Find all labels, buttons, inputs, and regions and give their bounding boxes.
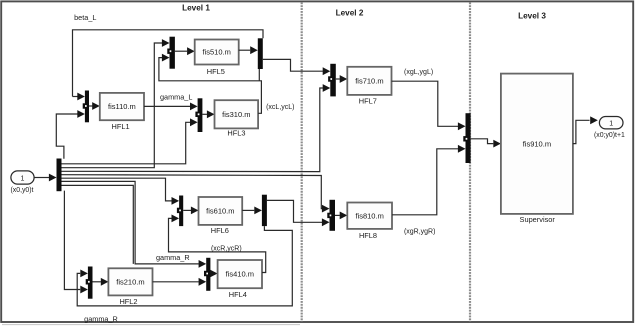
svg-text:HFL4: HFL4: [229, 290, 247, 299]
mux M6 bar: [179, 196, 183, 227]
svg-text:(x0;y0)t+1: (x0;y0)t+1: [594, 132, 625, 139]
wire fis510 out to demux D5: [239, 49, 251, 51]
svg-text:gamma_L: gamma_L: [160, 92, 192, 101]
svg-text:(xcL,ycL): (xcL,ycL): [266, 104, 294, 111]
svg-text:HFL8: HFL8: [359, 231, 377, 240]
wire M8 out to fis810: [335, 214, 340, 216]
output port oval 1: [599, 117, 623, 129]
wire M4 out to fis410: [210, 273, 212, 275]
wire M3 out to fis310: [202, 113, 207, 115]
scan shadow under bottom border: [2, 324, 300, 326]
svg-text:HFL7: HFL7: [359, 97, 377, 106]
mux M9 bar: [466, 113, 471, 163]
level divider 2-3: [469, 2, 471, 321]
wire D0 line1 to mux M3 in2: [62, 122, 191, 164]
svg-text:fis410.m: fis410.m: [226, 270, 254, 279]
svg-text:beta_L: beta_L: [74, 13, 96, 22]
wire D0 line3 to mux M7 in2: [62, 88, 323, 172]
wire D5 out to mux M7 in1: [263, 59, 323, 71]
demux D6 bar: [262, 195, 267, 226]
wire D0 top jog to mux M1 in2: [56, 114, 77, 159]
wire M5 out to fis510: [175, 50, 187, 52]
svg-text:(x0,y0)t: (x0,y0)t: [11, 187, 34, 194]
svg-text:Level 1: Level 1: [182, 3, 210, 12]
svg-text:HFL2: HFL2: [119, 297, 137, 306]
svg-text:fis710.m: fis710.m: [355, 76, 383, 85]
wire beta_L net: [73, 30, 264, 97]
svg-text:HFL5: HFL5: [207, 67, 225, 76]
mux M9 port marker: [463, 136, 469, 141]
block HFL5 fis510.m: [195, 40, 239, 65]
wire M7 out to fis710: [336, 78, 340, 80]
wire M6 out to fis610: [183, 209, 191, 211]
block HFL2 fis210.m: [108, 268, 152, 295]
block HFL7 fis710.m: [347, 67, 391, 95]
block HFL8 fis810.m: [347, 203, 392, 229]
demux D0 bar: [57, 159, 62, 192]
svg-text:fis910.m: fis910.m: [523, 139, 551, 148]
mux M3 bar: [198, 98, 203, 132]
level divider 1-2: [301, 2, 303, 321]
mux M6 port marker: [177, 208, 183, 213]
wire fis610 out to demux D6: [242, 209, 254, 211]
wire input oval to demux D0: [34, 177, 49, 179]
mux M1 bar: [85, 91, 89, 123]
svg-text:HFL6: HFL6: [211, 226, 229, 235]
wire D0 line5 to mux M6 in1: [62, 178, 172, 201]
mux M4 port marker: [204, 271, 210, 276]
wire D0 line6 gamma_R to mux M4 in1: [62, 181, 199, 264]
wire fis710 out xgL,ygL to mux M9 in1: [392, 81, 459, 126]
wire fis810 out xgR,ygR to mux M9 in2: [392, 149, 458, 215]
svg-text:fis810.m: fis810.m: [355, 211, 383, 220]
svg-text:Supervisor: Supervisor: [520, 215, 556, 224]
svg-text:(xgR,ygR): (xgR,ygR): [404, 229, 436, 236]
svg-text:fis310.m: fis310.m: [222, 110, 250, 119]
svg-text:(xcR,ycR): (xcR,ycR): [211, 246, 242, 253]
wire M1 out to fis110: [89, 105, 92, 107]
wire D0 bottom to mux M2 in2: [64, 191, 80, 290]
wire M2 out to fis210: [93, 281, 101, 283]
svg-text:fis510.m: fis510.m: [203, 48, 231, 57]
wire D5 bottom stub to xcL loop: [258, 69, 260, 81]
block HFL1 fis110.m: [100, 93, 144, 120]
svg-text:fis210.m: fis210.m: [116, 277, 144, 286]
wire fis210 out to mux M4 in2: [153, 281, 199, 283]
svg-text:fis610.m: fis610.m: [206, 207, 234, 216]
svg-text:HFL1: HFL1: [112, 122, 130, 131]
mux M8 port marker: [327, 213, 333, 218]
wire M9 out to Supervisor: [471, 139, 494, 144]
block HFL6 fis610.m: [199, 197, 243, 225]
mux M5 port marker: [167, 49, 173, 54]
wire Supervisor out to output oval: [573, 120, 590, 143]
wire D6 out to mux M8 in2: [267, 200, 322, 222]
svg-text:1: 1: [21, 175, 25, 182]
wire fis410 out xcR,ycR loop to mux M6 in2: [169, 218, 266, 272]
mux M1 port marker: [83, 103, 89, 108]
svg-text:1: 1: [609, 121, 613, 128]
mux M5 bar: [170, 37, 175, 69]
mux M8 bar: [330, 200, 336, 231]
wire D6 bottom gamma_R loop to mux M2 in1: [77, 226, 292, 306]
mux M2 port marker: [86, 279, 92, 284]
mux M7 bar: [330, 64, 336, 97]
svg-text:Level 3: Level 3: [518, 11, 546, 20]
mux M7 port marker: [328, 76, 334, 81]
wire fis310 out xcL,ycL loop to mux M5 in2: [159, 58, 262, 114]
wire D0 line4 to mux M8 in1: [62, 175, 323, 209]
block HFL3 fis310.m: [215, 100, 259, 128]
wire D0 line7 parallel drop: [62, 185, 134, 264]
wire D0 line2 to mux M5 in1: [62, 43, 163, 168]
wire fis110 out gamma_L to mux M3 in1: [144, 105, 190, 107]
block HFL4 fis410.m: [218, 260, 262, 288]
mux M4 bar: [206, 258, 210, 291]
svg-text:gamma_R: gamma_R: [156, 253, 190, 262]
demux D5 bar: [258, 38, 263, 69]
svg-text:gamma_R: gamma_R: [84, 314, 118, 323]
svg-text:(xgL,ygL): (xgL,ygL): [404, 69, 433, 76]
mux M3 port marker: [195, 112, 201, 117]
svg-text:Level 2: Level 2: [336, 8, 364, 17]
block Supervisor fis910.m: [501, 74, 573, 214]
svg-text:fis110.m: fis110.m: [108, 102, 136, 111]
input port oval 1: [11, 171, 34, 184]
svg-text:HFL3: HFL3: [227, 129, 245, 138]
mux M2 bar: [88, 267, 93, 299]
